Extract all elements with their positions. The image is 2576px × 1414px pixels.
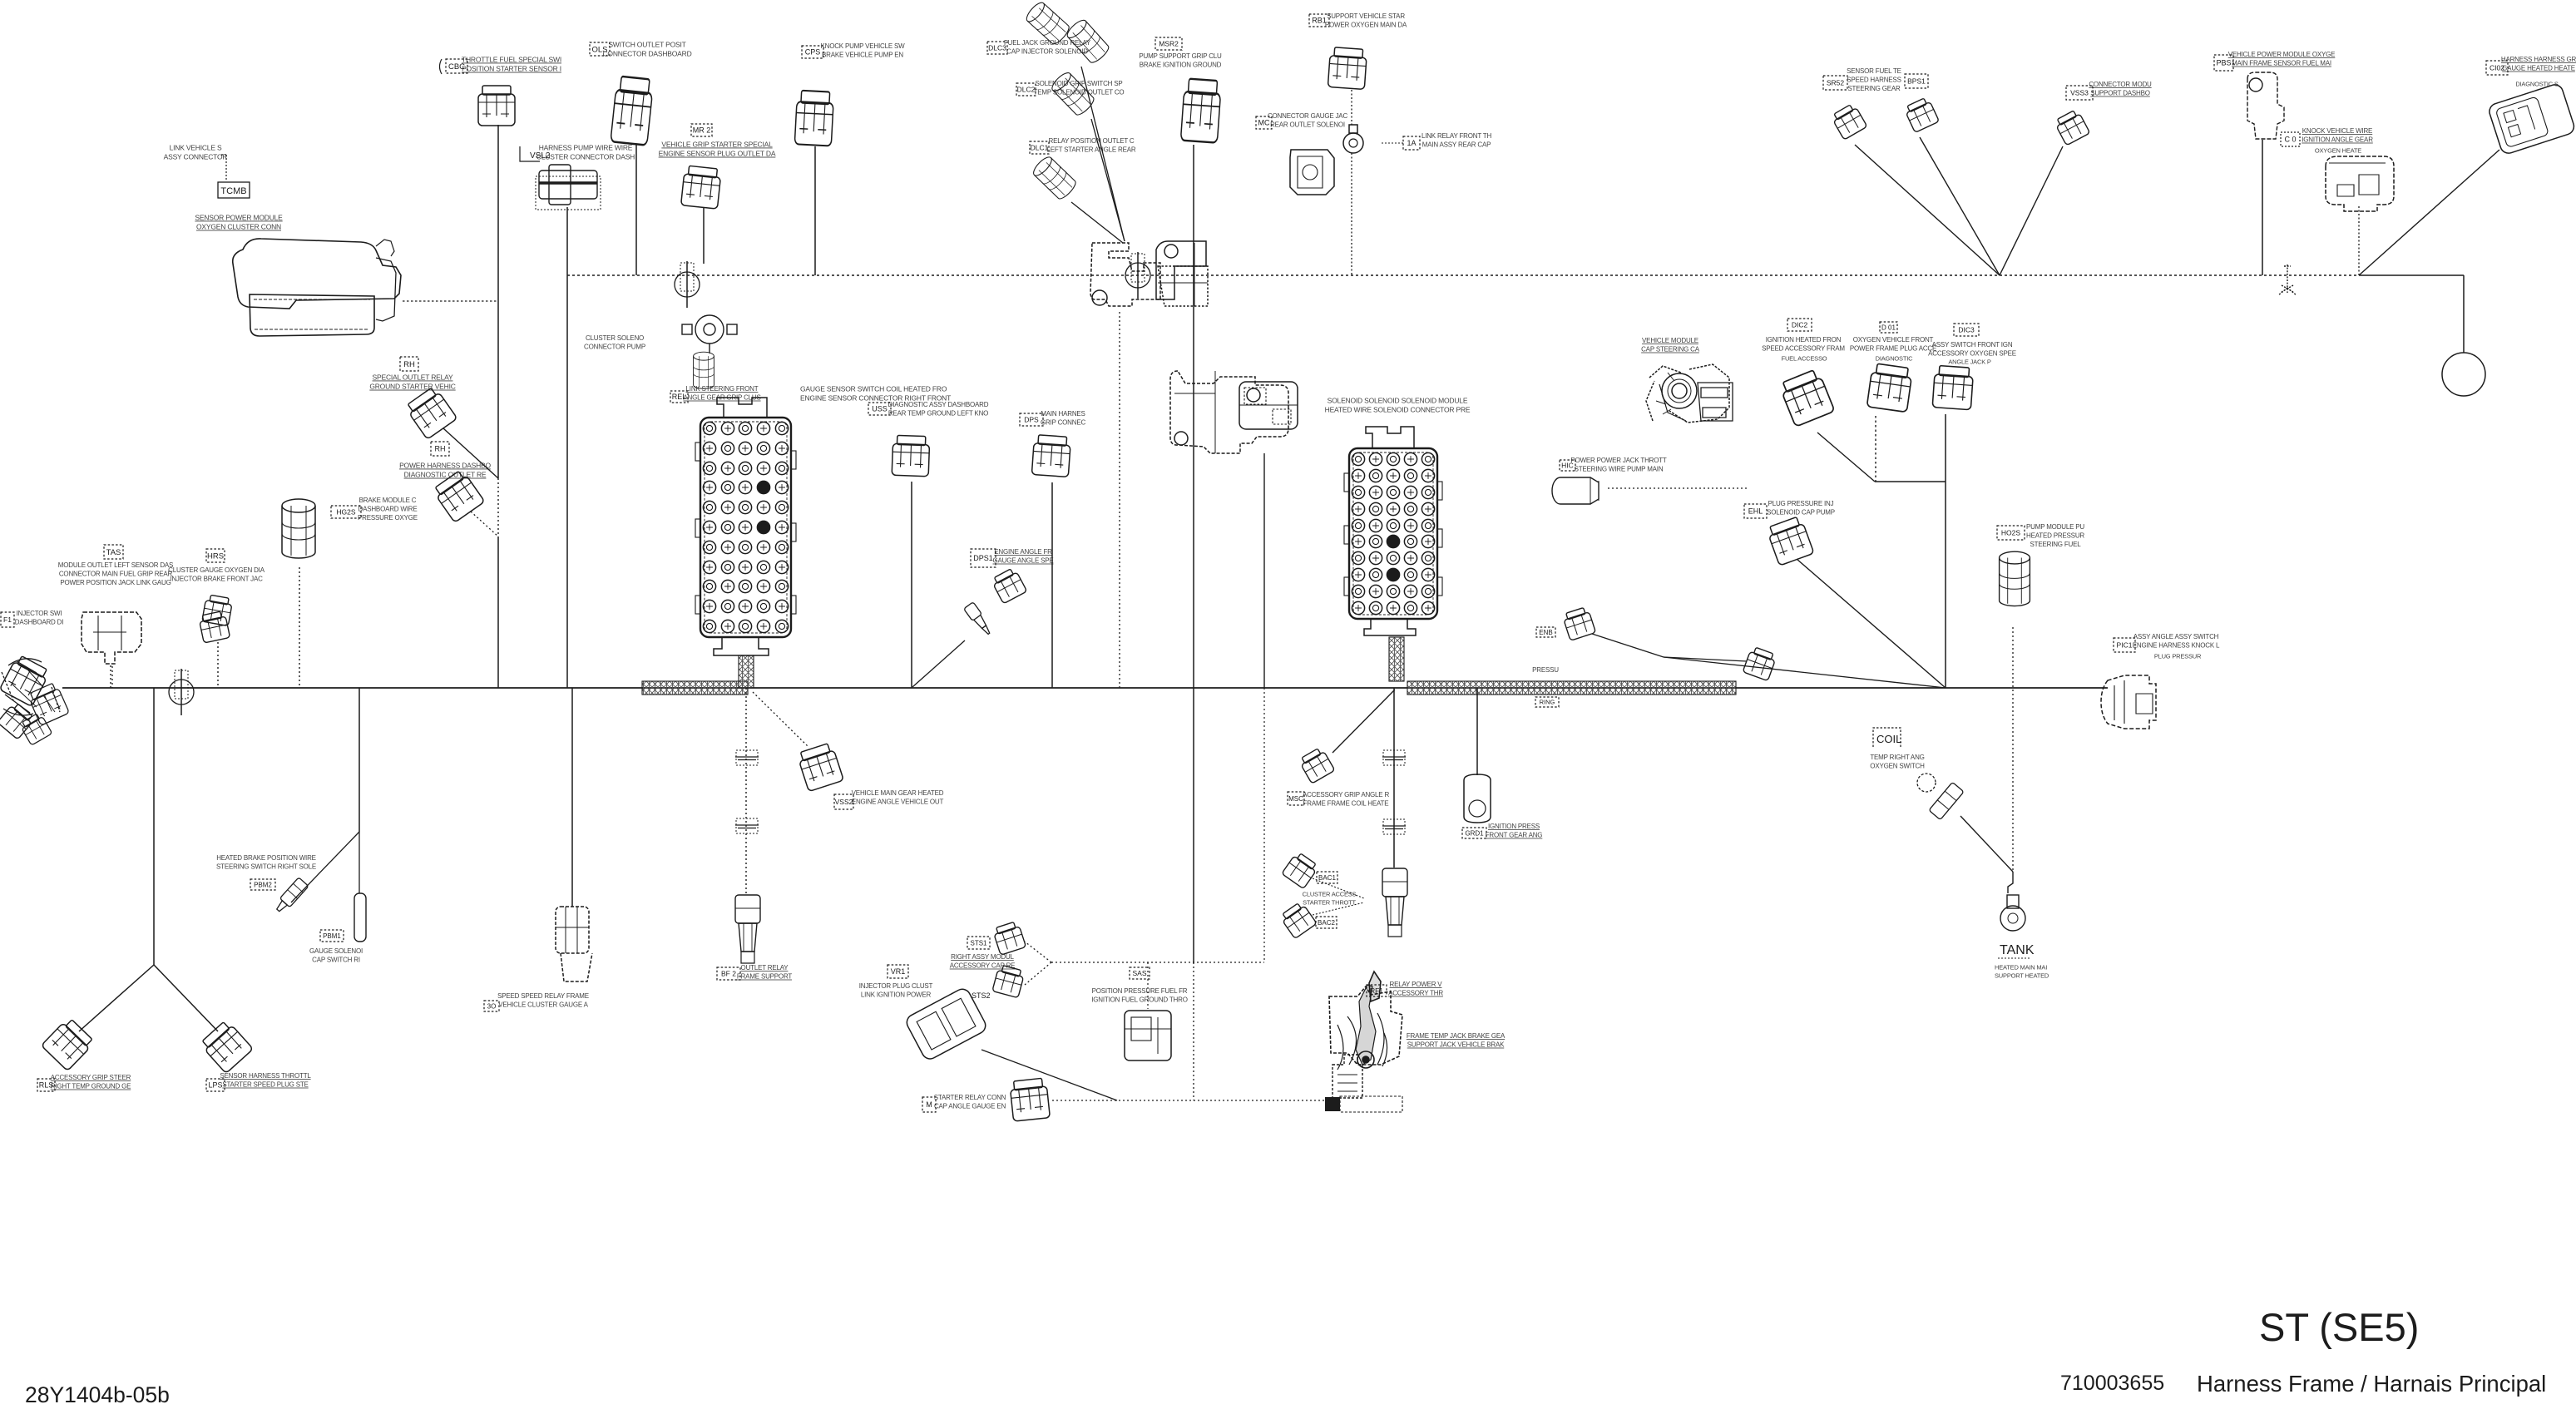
svg-text:HARNESS PUMP WIRE WIRE: HARNESS PUMP WIRE WIRE xyxy=(539,144,633,152)
svg-text:ACCESSORY GRIP ANGLE R: ACCESSORY GRIP ANGLE R xyxy=(1303,791,1390,798)
svg-text:SR52: SR52 xyxy=(1827,79,1845,87)
svg-text:SPEED ACCESSORY FRAM: SPEED ACCESSORY FRAM xyxy=(1762,345,1845,353)
svg-text:MAIN ASSY REAR CAP: MAIN ASSY REAR CAP xyxy=(1422,141,1491,149)
svg-text:PBM1: PBM1 xyxy=(323,932,341,940)
svg-text:TEMP RIGHT ANG: TEMP RIGHT ANG xyxy=(1870,754,1924,761)
svg-text:VEHICLE CLUSTER GAUGE A: VEHICLE CLUSTER GAUGE A xyxy=(498,1001,588,1009)
svg-text:MAIN FRAME SENSOR FUEL MAI: MAIN FRAME SENSOR FUEL MAI xyxy=(2232,60,2331,67)
svg-text:SENSOR FUEL TE: SENSOR FUEL TE xyxy=(1847,67,1901,75)
svg-text:SPECIAL OUTLET RELAY: SPECIAL OUTLET RELAY xyxy=(373,373,453,382)
svg-text:STEERING GEAR: STEERING GEAR xyxy=(1847,85,1901,92)
svg-text:ANGLE JACK P: ANGLE JACK P xyxy=(1948,358,1991,366)
svg-text:DASHBOARD WIRE: DASHBOARD WIRE xyxy=(358,506,418,513)
svg-text:VR1: VR1 xyxy=(891,967,906,976)
svg-text:KNOCK VEHICLE WIRE: KNOCK VEHICLE WIRE xyxy=(2302,127,2372,135)
svg-text:OXYGEN SWITCH: OXYGEN SWITCH xyxy=(1870,763,1925,770)
svg-text:Harness Frame / Harnais Princi: Harness Frame / Harnais Principal xyxy=(2197,1371,2546,1397)
svg-text:PUMP MODULE PU: PUMP MODULE PU xyxy=(2026,523,2084,531)
svg-text:POSITION STARTER SENSOR I: POSITION STARTER SENSOR I xyxy=(462,65,561,73)
svg-text:ENGINE ANGLE VEHICLE OUT: ENGINE ANGLE VEHICLE OUT xyxy=(852,798,944,806)
svg-text:CONNECTOR MODU: CONNECTOR MODU xyxy=(2089,81,2152,88)
svg-text:CLUSTER ACCESS: CLUSTER ACCESS xyxy=(1303,891,1357,898)
svg-text:DIAGNOSTIC OUTLET RE: DIAGNOSTIC OUTLET RE xyxy=(404,471,487,479)
svg-text:GAUGE HEATED HEATE: GAUGE HEATED HEATE xyxy=(2502,65,2575,72)
svg-text:FRONT GEAR ANG: FRONT GEAR ANG xyxy=(1486,832,1543,839)
svg-text:DIAGNOSTIC S: DIAGNOSTIC S xyxy=(2515,81,2559,88)
svg-text:SPEED HARNESS: SPEED HARNESS xyxy=(1847,77,1901,84)
svg-text:HEATED MAIN MAI: HEATED MAIN MAI xyxy=(1995,964,2047,972)
svg-text:DLC1: DLC1 xyxy=(1031,144,1049,152)
svg-text:MR 2: MR 2 xyxy=(693,126,711,135)
svg-text:LINK RELAY FRONT TH: LINK RELAY FRONT TH xyxy=(1421,132,1491,140)
svg-text:POSITION PRESSURE FUEL FR: POSITION PRESSURE FUEL FR xyxy=(1092,987,1188,995)
svg-text:RING: RING xyxy=(1540,699,1555,706)
svg-text:ENGINE SENSOR PLUG OUTLET DA: ENGINE SENSOR PLUG OUTLET DA xyxy=(659,150,776,158)
svg-text:MC: MC xyxy=(1258,119,1270,127)
svg-text:GRIP CONNEC: GRIP CONNEC xyxy=(1041,419,1086,427)
svg-text:BAC2: BAC2 xyxy=(1318,919,1335,927)
svg-text:MAIN HARNES: MAIN HARNES xyxy=(1041,410,1085,418)
svg-text:MODULE OUTLET LEFT SENSOR DAS: MODULE OUTLET LEFT SENSOR DAS xyxy=(58,561,173,569)
svg-text:D 01: D 01 xyxy=(1881,324,1896,331)
svg-text:ENB: ENB xyxy=(1539,629,1552,636)
svg-text:SPEED SPEED RELAY FRAME: SPEED SPEED RELAY FRAME xyxy=(497,992,589,1000)
svg-text:HEATED PRESSUR: HEATED PRESSUR xyxy=(2026,532,2084,540)
svg-text:REAR OUTLET SOLENOI: REAR OUTLET SOLENOI xyxy=(1270,121,1345,129)
svg-text:DPS: DPS xyxy=(1024,416,1039,424)
svg-text:POWER POSITION JACK LINK GAUG: POWER POSITION JACK LINK GAUG xyxy=(60,579,171,586)
svg-text:IGNITION ANGLE GEAR: IGNITION ANGLE GEAR xyxy=(2302,136,2373,144)
svg-text:ENGINE HARNESS KNOCK L: ENGINE HARNESS KNOCK L xyxy=(2133,642,2220,650)
svg-text:BF 2: BF 2 xyxy=(721,970,736,978)
svg-text:HRS: HRS xyxy=(207,551,224,561)
svg-text:HG2S: HG2S xyxy=(336,508,355,517)
svg-text:POWER POWER JACK THROTT: POWER POWER JACK THROTT xyxy=(1570,457,1667,464)
svg-text:FUEL ACCESSO: FUEL ACCESSO xyxy=(1782,355,1827,363)
svg-text:PIC1: PIC1 xyxy=(2117,641,2133,650)
svg-text:EHL: EHL xyxy=(1748,507,1763,516)
svg-text:ASSY ANGLE ASSY SWITCH: ASSY ANGLE ASSY SWITCH xyxy=(2133,633,2219,640)
svg-text:SUPPORT DASHBO: SUPPORT DASHBO xyxy=(2090,90,2150,97)
svg-text:CPS: CPS xyxy=(805,48,821,57)
svg-text:FRAME SUPPORT: FRAME SUPPORT xyxy=(737,973,792,981)
svg-text:IGNITION HEATED FRON: IGNITION HEATED FRON xyxy=(1766,336,1842,344)
svg-text:IGNITION PRESS: IGNITION PRESS xyxy=(1488,823,1540,830)
svg-text:3O: 3O xyxy=(487,1002,497,1010)
svg-text:DIAGNOSTIC: DIAGNOSTIC xyxy=(1876,355,1913,363)
svg-text:ACCESSORY OXYGEN SPEE: ACCESSORY OXYGEN SPEE xyxy=(1928,350,2016,358)
svg-text:OXYGEN VEHICLE FRONT: OXYGEN VEHICLE FRONT xyxy=(1853,336,1934,344)
svg-text:TANK: TANK xyxy=(2000,943,2035,957)
svg-text:CONNECTOR GAUGE JAC: CONNECTOR GAUGE JAC xyxy=(1268,112,1347,120)
svg-text:OXYGEN HEATE: OXYGEN HEATE xyxy=(2315,147,2361,155)
svg-text:LEFT STARTER ANGLE REAR: LEFT STARTER ANGLE REAR xyxy=(1047,146,1136,154)
svg-text:DASHBOARD DI: DASHBOARD DI xyxy=(15,619,64,626)
svg-text:MSC: MSC xyxy=(1288,795,1303,803)
svg-text:INJECTOR BRAKE FRONT JAC: INJECTOR BRAKE FRONT JAC xyxy=(170,576,263,583)
svg-text:CLUSTER SOLENO: CLUSTER SOLENO xyxy=(586,334,644,342)
svg-text:CONNECTOR DASHBOARD: CONNECTOR DASHBOARD xyxy=(602,50,691,58)
svg-text:SUPPORT HEATED: SUPPORT HEATED xyxy=(1995,972,2049,980)
svg-text:SUPPORT VEHICLE STAR: SUPPORT VEHICLE STAR xyxy=(1327,12,1405,20)
svg-text:VSS2: VSS2 xyxy=(835,798,853,806)
svg-text:KNOCK PUMP VEHICLE SW: KNOCK PUMP VEHICLE SW xyxy=(820,42,905,50)
svg-text:HEATED WIRE SOLENOID CONNECTOR: HEATED WIRE SOLENOID CONNECTOR PRE xyxy=(1325,406,1471,414)
svg-text:STEERING FUEL: STEERING FUEL xyxy=(2030,541,2082,548)
svg-text:RH: RH xyxy=(403,360,415,369)
svg-text:CAP STEERING CA: CAP STEERING CA xyxy=(1641,346,1700,353)
svg-text:STARTER RELAY CONN: STARTER RELAY CONN xyxy=(934,1094,1006,1101)
svg-text:FUEL JACK GROUND RELAY: FUEL JACK GROUND RELAY xyxy=(1004,39,1091,47)
svg-text:VEHICLE GRIP STARTER SPECIAL: VEHICLE GRIP STARTER SPECIAL xyxy=(661,141,773,149)
svg-text:POWER OXYGEN MAIN DA: POWER OXYGEN MAIN DA xyxy=(1325,22,1407,29)
svg-text:INJECTOR SWI: INJECTOR SWI xyxy=(17,610,62,617)
svg-text:CLUSTER GAUGE OXYGEN DIA: CLUSTER GAUGE OXYGEN DIA xyxy=(168,566,265,574)
svg-text:STARTER SPEED PLUG STE: STARTER SPEED PLUG STE xyxy=(222,1081,308,1089)
svg-text:LINK VEHICLE S: LINK VEHICLE S xyxy=(170,144,222,152)
svg-text:M: M xyxy=(926,1100,932,1109)
svg-text:RELAY POSITION OUTLET C: RELAY POSITION OUTLET C xyxy=(1049,137,1135,145)
svg-text:RH: RH xyxy=(435,445,446,453)
svg-text:INJECTOR PLUG CLUST: INJECTOR PLUG CLUST xyxy=(859,982,933,990)
svg-text:THROTTLE FUEL SPECIAL SWI: THROTTLE FUEL SPECIAL SWI xyxy=(462,56,561,64)
svg-text:GRD1: GRD1 xyxy=(1465,829,1484,837)
svg-text:PUMP SUPPORT GRIP CLU: PUMP SUPPORT GRIP CLU xyxy=(1139,52,1222,60)
svg-text:MSR2: MSR2 xyxy=(1159,40,1179,48)
svg-text:ST (SE5): ST (SE5) xyxy=(2259,1305,2419,1349)
svg-text:VEHICLE MAIN GEAR HEATED: VEHICLE MAIN GEAR HEATED xyxy=(852,789,944,797)
svg-text:SENSOR POWER MODULE: SENSOR POWER MODULE xyxy=(195,214,283,222)
svg-text:VEHICLE MODULE: VEHICLE MODULE xyxy=(1642,337,1698,344)
svg-text:ACCESSORY THR: ACCESSORY THR xyxy=(1388,990,1443,997)
svg-text:BPS1: BPS1 xyxy=(1907,77,1926,86)
svg-text:VSS3: VSS3 xyxy=(2070,89,2089,97)
svg-text:PRESSU: PRESSU xyxy=(1532,666,1559,674)
svg-text:SENSOR HARNESS THROTTL: SENSOR HARNESS THROTTL xyxy=(220,1072,311,1080)
svg-text:VEHICLE POWER MODULE OXYGE: VEHICLE POWER MODULE OXYGE xyxy=(2228,51,2336,58)
svg-text:BAC1: BAC1 xyxy=(1318,874,1336,882)
svg-text:PBM2: PBM2 xyxy=(254,881,272,888)
svg-text:HARNESS HARNESS GR: HARNESS HARNESS GR xyxy=(2501,56,2576,63)
svg-text:DPS1: DPS1 xyxy=(973,554,993,562)
svg-text:GROUND STARTER VEHIC: GROUND STARTER VEHIC xyxy=(369,383,455,391)
svg-text:STARTER THROTT: STARTER THROTT xyxy=(1303,899,1356,907)
svg-text:POWER HARNESS DASHBO: POWER HARNESS DASHBO xyxy=(399,462,491,470)
svg-text:CLUSTER CONNECTOR DASH: CLUSTER CONNECTOR DASH xyxy=(536,153,635,161)
svg-text:COIL: COIL xyxy=(1876,733,1901,745)
svg-text:IGNITION FUEL GROUND THRO: IGNITION FUEL GROUND THRO xyxy=(1091,996,1187,1004)
svg-text:LINK IGNITION POWER: LINK IGNITION POWER xyxy=(861,991,932,999)
svg-text:LINK STEERING FRONT: LINK STEERING FRONT xyxy=(686,385,759,393)
svg-text:1A: 1A xyxy=(1407,139,1416,147)
svg-text:POWER FRAME PLUG ACCE: POWER FRAME PLUG ACCE xyxy=(1850,345,1936,353)
svg-text:CAP INJECTOR SOLENOID: CAP INJECTOR SOLENOID xyxy=(1006,48,1088,56)
svg-text:CAP SWITCH RI: CAP SWITCH RI xyxy=(312,957,360,964)
svg-text:PBS: PBS xyxy=(2216,59,2231,67)
svg-text:DIC2: DIC2 xyxy=(1792,321,1808,329)
svg-text:SAS: SAS xyxy=(1132,969,1146,977)
svg-text:ACCESSORY CAP RE: ACCESSORY CAP RE xyxy=(950,962,1016,970)
svg-text:ENGINE ANGLE FR: ENGINE ANGLE FR xyxy=(994,548,1052,556)
svg-text:GAUGE ANGLE SPE: GAUGE ANGLE SPE xyxy=(992,557,1053,565)
svg-text:28Y1404b-05b: 28Y1404b-05b xyxy=(25,1382,170,1407)
svg-text:RELAY POWER V: RELAY POWER V xyxy=(1390,981,1443,988)
svg-text:STS2: STS2 xyxy=(972,991,991,1000)
svg-text:710003655: 710003655 xyxy=(2060,1372,2164,1395)
svg-text:ASSY CONNECTOR: ASSY CONNECTOR xyxy=(164,153,228,161)
svg-text:TAS: TAS xyxy=(106,548,121,557)
svg-text:DIAGNOSTIC ASSY DASHBOARD: DIAGNOSTIC ASSY DASHBOARD xyxy=(888,401,989,408)
svg-text:GAUGE SOLENOI: GAUGE SOLENOI xyxy=(309,947,363,955)
svg-text:BRAKE MODULE C: BRAKE MODULE C xyxy=(359,497,417,504)
svg-text:HO2S: HO2S xyxy=(2001,529,2020,537)
svg-text:PRESSURE OXYGE: PRESSURE OXYGE xyxy=(358,514,418,522)
svg-text:OXYGEN CLUSTER CONN: OXYGEN CLUSTER CONN xyxy=(196,223,281,231)
svg-text:CAP ANGLE GAUGE EN: CAP ANGLE GAUGE EN xyxy=(934,1103,1006,1110)
svg-text:SOLENOID SOLENOID SOLENOID MOD: SOLENOID SOLENOID SOLENOID MODULE xyxy=(1328,397,1468,405)
svg-text:REAR TEMP GROUND LEFT KNO: REAR TEMP GROUND LEFT KNO xyxy=(888,410,988,418)
svg-text:FRAME FRAME COIL HEATE: FRAME FRAME COIL HEATE xyxy=(1303,800,1389,808)
svg-text:SWITCH OUTLET POSIT: SWITCH OUTLET POSIT xyxy=(608,41,685,49)
svg-text:FRAME TEMP JACK BRAKE GEA: FRAME TEMP JACK BRAKE GEA xyxy=(1407,1032,1506,1040)
svg-text:CONNECTOR MAIN FUEL GRIP REAR: CONNECTOR MAIN FUEL GRIP REAR xyxy=(59,571,173,578)
svg-text:STEERING WIRE PUMP MAIN: STEERING WIRE PUMP MAIN xyxy=(1575,466,1664,473)
svg-text:HEATED BRAKE POSITION WIRE: HEATED BRAKE POSITION WIRE xyxy=(216,854,316,862)
svg-text:C 0: C 0 xyxy=(2284,136,2296,144)
svg-text:BRAKE VEHICLE PUMP EN: BRAKE VEHICLE PUMP EN xyxy=(822,52,903,59)
svg-text:BRAKE IGNITION GROUND: BRAKE IGNITION GROUND xyxy=(1140,62,1222,69)
svg-text:SOLENOID CAP PUMP: SOLENOID CAP PUMP xyxy=(1767,509,1835,517)
svg-text:STS1: STS1 xyxy=(970,939,987,947)
svg-text:DIC3: DIC3 xyxy=(1958,326,1975,334)
svg-text:USS: USS xyxy=(872,405,888,413)
svg-text:F1: F1 xyxy=(3,616,12,624)
svg-text:STEERING SWITCH RIGHT SOLE: STEERING SWITCH RIGHT SOLE xyxy=(216,863,316,871)
svg-text:RIGHT TEMP GROUND GE: RIGHT TEMP GROUND GE xyxy=(51,1083,131,1090)
svg-text:GAUGE SENSOR SWITCH COIL HEATE: GAUGE SENSOR SWITCH COIL HEATED FRO xyxy=(800,385,947,393)
svg-text:PLUG PRESSUR: PLUG PRESSUR xyxy=(2154,653,2202,660)
svg-text:TCMB: TCMB xyxy=(220,186,246,196)
svg-text:DLC2: DLC2 xyxy=(1017,86,1036,94)
svg-text:RIGHT ASSY MODUL: RIGHT ASSY MODUL xyxy=(951,953,1014,961)
svg-text:ASSY SWITCH FRONT IGN: ASSY SWITCH FRONT IGN xyxy=(1932,341,2013,349)
svg-text:PLUG PRESSURE INJ: PLUG PRESSURE INJ xyxy=(1768,500,1834,507)
svg-text:OUTLET RELAY: OUTLET RELAY xyxy=(741,964,789,972)
svg-text:SUPPORT JACK VEHICLE BRAK: SUPPORT JACK VEHICLE BRAK xyxy=(1407,1041,1505,1049)
svg-text:CONNECTOR PUMP: CONNECTOR PUMP xyxy=(584,344,645,351)
svg-text:ACCESSORY GRIP STEER: ACCESSORY GRIP STEER xyxy=(51,1074,131,1081)
svg-text:LPS: LPS xyxy=(208,1081,222,1090)
